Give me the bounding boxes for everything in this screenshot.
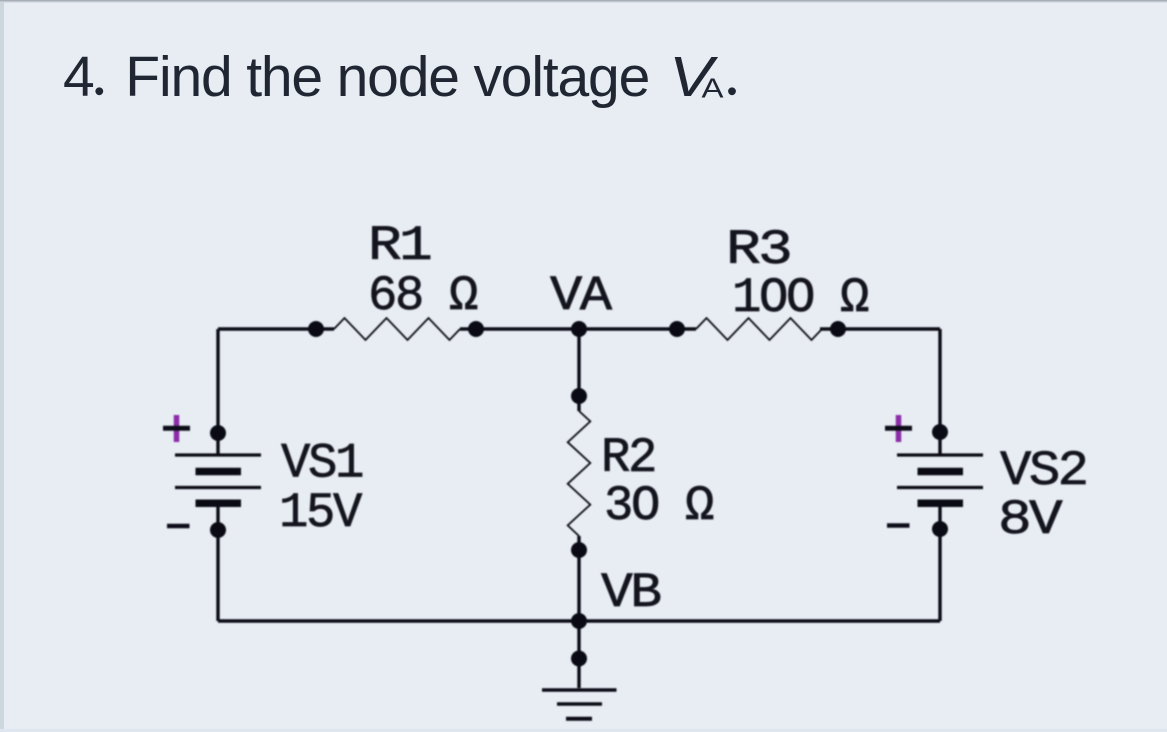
svg-text:1OO Ω: 1OO Ω (732, 270, 869, 326)
svg-text:R1: R1 (368, 218, 431, 274)
svg-text:VS1: VS1 (281, 436, 363, 492)
svg-text:68 Ω: 68 Ω (368, 268, 478, 324)
svg-text:VB: VB (601, 565, 661, 621)
svg-text:15V: 15V (279, 485, 363, 541)
svg-text:VA: VA (550, 268, 613, 324)
svg-text:8V: 8V (998, 492, 1063, 548)
svg-text:VS2: VS2 (1000, 443, 1087, 499)
svg-text:3O Ω: 3O Ω (604, 478, 714, 534)
